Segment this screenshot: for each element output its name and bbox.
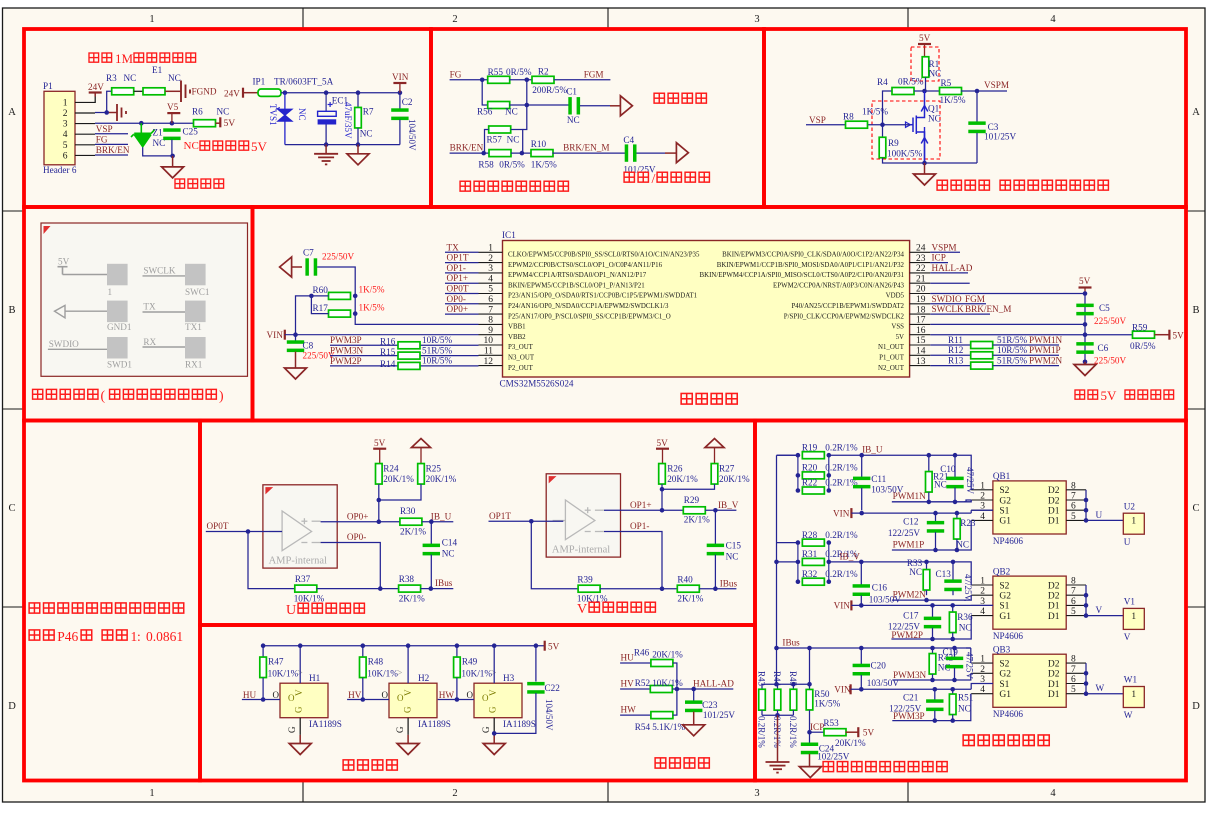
wire R46 to node	[673, 663, 677, 689]
svg-text:ICP: ICP	[810, 722, 824, 732]
pins left QB2	[971, 585, 993, 616]
junction VIN/C8	[293, 332, 298, 337]
svg-text:P1: P1	[43, 81, 53, 91]
annotation: speed signal / level shift (red)	[937, 180, 947, 190]
capacitor C20 103/50V	[860, 648, 862, 664]
junction rail pin17	[1083, 322, 1088, 327]
resistor R53 20K/1%	[810, 731, 825, 733]
resistor R7 (NC)	[357, 93, 359, 108]
svg-text:R54: R54	[635, 722, 651, 732]
wire OP0T input	[206, 531, 282, 533]
svg-text:2K/1%: 2K/1%	[677, 594, 703, 604]
svg-text:R22: R22	[802, 478, 818, 488]
right pin 16 wire to R59	[930, 334, 1132, 336]
svg-text:R26: R26	[667, 464, 683, 474]
svg-text:PWM2N: PWM2N	[893, 589, 927, 599]
svg-text:S1: S1	[999, 507, 1009, 517]
resistor R4 0R/5%	[883, 91, 893, 125]
junction C14 bottom	[429, 586, 434, 591]
wire IB_U row	[777, 454, 798, 456]
wire C22 bottom to H3 G	[494, 693, 536, 733]
pins right QB2	[1066, 585, 1086, 616]
wire R1 bottom	[925, 77, 927, 91]
wire bottom rail block1	[285, 144, 400, 146]
svg-text:3: 3	[754, 14, 759, 25]
svg-text:NP4606: NP4606	[993, 631, 1024, 641]
junction C1 left	[525, 103, 530, 108]
svg-text:(: (	[101, 388, 106, 404]
junction R39/R40/OP1-	[660, 586, 665, 591]
svg-text:R27: R27	[719, 464, 735, 474]
svg-text:OP0-: OP0-	[347, 532, 366, 542]
svg-text:R39: R39	[577, 574, 593, 584]
svg-text:10R/5%: 10R/5%	[997, 345, 1027, 355]
svg-text:NC: NC	[959, 623, 972, 633]
svg-text:101/25V: 101/25V	[984, 132, 1017, 142]
svg-text:TX: TX	[447, 242, 460, 252]
annotation: reserved port swap circuit (red)	[460, 181, 470, 191]
svg-text:0.2R/1%: 0.2R/1%	[788, 716, 798, 748]
resistor R27 20K/1%	[711, 464, 718, 485]
svg-text:D: D	[8, 701, 16, 712]
svg-text:TX: TX	[143, 302, 156, 312]
junction C23 top	[691, 687, 696, 692]
svg-text:0R/5%: 0R/5%	[506, 67, 532, 77]
ground (C8)	[295, 352, 297, 369]
wire to output connector V1	[1086, 615, 1123, 617]
svg-text:0.2R/1%: 0.2R/1%	[825, 442, 858, 452]
resistor R29 2K/1%	[683, 507, 705, 514]
svg-text:4: 4	[1050, 788, 1056, 799]
svg-text:C14: C14	[442, 538, 458, 548]
svg-text:A: A	[8, 107, 16, 118]
svg-text:7: 7	[488, 305, 493, 315]
svg-text:B: B	[1192, 305, 1199, 316]
resistor R3 (NC)	[112, 88, 134, 95]
resistor E1 (NC)	[143, 88, 165, 95]
power arrow VCC (V-phase)	[705, 439, 724, 448]
wire main 24V rail	[281, 92, 400, 94]
svg-text:0.2R/1%: 0.2R/1%	[757, 716, 767, 748]
junction R60 right	[353, 294, 358, 299]
junction HALL-AD	[675, 687, 680, 692]
annotation: main control circuit (red)	[681, 393, 692, 404]
svg-text:R16: R16	[380, 337, 396, 347]
svg-text:PWM2P: PWM2P	[330, 356, 362, 366]
wire HW row	[620, 714, 651, 716]
grey arrow port GND1	[55, 305, 66, 317]
svg-text:16: 16	[916, 326, 926, 336]
svg-text:V: V	[488, 689, 498, 696]
svg-text:RX: RX	[143, 337, 156, 347]
svg-text:R29: R29	[684, 495, 700, 505]
annotation: speed feedback (red)	[654, 93, 664, 103]
power port V5	[167, 112, 180, 114]
junction R2 left	[525, 78, 530, 83]
junction C10 top	[953, 453, 958, 458]
svg-text:NP4606: NP4606	[993, 709, 1024, 719]
svg-text:D2: D2	[1048, 496, 1060, 506]
svg-text:R3: R3	[106, 73, 117, 83]
capacitor C25	[163, 128, 180, 140]
svg-text:RX1: RX1	[185, 360, 203, 370]
svg-text:0.2R/1%: 0.2R/1%	[825, 463, 858, 473]
svg-text:R4: R4	[877, 77, 888, 87]
capacitor C5 225/50V	[1076, 304, 1093, 316]
pins right QB1	[1066, 490, 1086, 521]
wire IBus row (U)	[248, 532, 295, 589]
svg-text:VIN: VIN	[267, 330, 284, 340]
svg-text:R47: R47	[268, 657, 284, 667]
wire OP1T input	[489, 520, 564, 522]
annotation: reserved external 5V (red)	[200, 141, 210, 150]
transistor Q1 (NC, blue MOSFET)	[913, 91, 928, 163]
svg-text:14: 14	[916, 347, 926, 357]
wire to output connector U2	[1086, 519, 1123, 521]
grey pad RX1	[185, 337, 206, 359]
wire C1 to port	[580, 105, 610, 107]
svg-text:R38: R38	[399, 574, 415, 584]
svg-text:20K/1%: 20K/1%	[835, 738, 866, 748]
wire H2 V pin	[407, 646, 409, 684]
svg-text:SWCLK: SWCLK	[932, 304, 965, 314]
svg-text:C6: C6	[1098, 343, 1109, 353]
svg-text:IB_V: IB_V	[840, 551, 861, 561]
svg-text:HU: HU	[243, 690, 257, 700]
svg-text:Q1: Q1	[928, 104, 940, 114]
junction C15 top	[713, 508, 718, 513]
svg-text:S1: S1	[999, 602, 1009, 612]
ground (C24)	[809, 754, 811, 767]
junction rail H2 V	[406, 643, 411, 648]
svg-text:5: 5	[63, 141, 68, 151]
resistor R33 (NC)	[926, 562, 928, 570]
svg-text:>: >	[397, 668, 403, 679]
power port 24V	[89, 91, 102, 93]
junction R21 top	[927, 453, 932, 458]
junction R47 bottom	[261, 697, 266, 702]
junction R36 top	[950, 603, 955, 608]
svg-text:8: 8	[1071, 481, 1076, 491]
svg-text:IP1: IP1	[253, 77, 266, 87]
op-amp triangle (U)	[269, 511, 320, 551]
wire BRK/EN row	[450, 152, 490, 154]
svg-text:S2: S2	[999, 659, 1009, 669]
capacitor C15 (NC)	[714, 510, 716, 544]
svg-text:18: 18	[916, 305, 926, 315]
wire H1 G pin	[299, 718, 301, 735]
svg-text:20: 20	[916, 285, 926, 295]
svg-text:BKIN/EPWM4/CCP1A/SPI0_MISO/SCL: BKIN/EPWM4/CCP1A/SPI0_MISO/SCL0/CTS0/A0P…	[700, 272, 905, 279]
resistor R10 1K/5%	[531, 150, 553, 157]
op-amp block V outline	[546, 474, 620, 557]
svg-text:NC: NC	[958, 704, 971, 714]
svg-text:R52: R52	[635, 678, 651, 688]
junction rail	[283, 90, 288, 95]
svg-text:5V: 5V	[863, 728, 875, 738]
wire R56 right	[509, 104, 569, 106]
5V rail vertical	[1084, 294, 1086, 362]
wire HU row	[242, 699, 280, 701]
resistor R24 20K/1%	[376, 464, 383, 485]
pins left QB1	[971, 490, 993, 521]
svg-text:R56: R56	[477, 106, 493, 116]
svg-text:C16: C16	[872, 583, 888, 593]
svg-text:CMS32M5526S024: CMS32M5526S024	[500, 379, 574, 389]
junction Z1 top	[139, 121, 144, 126]
svg-text:Header 6: Header 6	[43, 165, 77, 175]
wire R37-R38	[317, 588, 399, 590]
resistor R42 (NC)	[932, 648, 934, 654]
op-amp triangle (V)	[553, 500, 604, 540]
svg-text:PWM1N: PWM1N	[893, 491, 927, 501]
fuse IP1	[258, 89, 281, 96]
wire R24/R25 bottoms join	[378, 484, 380, 522]
svg-text:D: D	[1192, 701, 1200, 712]
resistor R8 1K/5%	[846, 121, 868, 128]
right pin 24 net VSPM	[930, 251, 960, 253]
svg-text:19: 19	[916, 295, 926, 305]
svg-text:QB1: QB1	[993, 471, 1011, 481]
svg-text:NC: NC	[567, 115, 580, 125]
svg-text:D2: D2	[1048, 581, 1060, 591]
svg-text:1: 1	[1131, 612, 1136, 622]
svg-text:1: 1	[980, 481, 985, 491]
annotation: reserved 5V jumper resistor (red)	[1075, 390, 1085, 399]
junction EC1 bottom	[324, 142, 329, 147]
svg-text:NC: NC	[442, 549, 455, 559]
svg-text:51R/5%: 51R/5%	[997, 335, 1027, 345]
zener diode Z1 (NC)	[131, 123, 155, 137]
wire to output connector W1	[1086, 693, 1123, 695]
svg-text:NC: NC	[726, 552, 739, 562]
wire pin1 to 24V bar	[94, 97, 96, 103]
svg-text:5V: 5V	[58, 257, 70, 267]
svg-text:R15: R15	[380, 347, 396, 357]
wire R57 left down	[485, 130, 489, 154]
svg-text:A: A	[1192, 107, 1200, 118]
svg-text:2: 2	[63, 109, 68, 119]
svg-text:R17: R17	[313, 303, 329, 313]
wire R29 to IB_V	[705, 509, 736, 511]
wire BRK/EN stub	[95, 154, 128, 156]
capacitor C1 (NC)	[568, 97, 580, 114]
wire R4-R5	[914, 90, 940, 92]
svg-text:NC: NC	[909, 567, 922, 577]
svg-text:1M: 1M	[115, 51, 134, 66]
svg-text:2: 2	[452, 14, 457, 25]
wire PWM2N row to G2	[892, 599, 966, 601]
svg-text:O: O	[273, 690, 280, 700]
wire R55-R2	[509, 79, 532, 81]
svg-text:G2: G2	[999, 670, 1011, 680]
wire VSP stub	[95, 133, 128, 135]
svg-text:51R/5%: 51R/5%	[997, 355, 1027, 365]
grey pad GND1	[107, 301, 128, 323]
svg-text:R59: R59	[1132, 323, 1148, 333]
svg-text:1: 1	[1131, 517, 1136, 527]
ground (H1)	[299, 735, 301, 744]
junction OP1T feedback	[529, 519, 534, 524]
wire FG to R56	[482, 80, 488, 105]
svg-text:SWDIO: SWDIO	[932, 294, 962, 304]
svg-text:C19: C19	[943, 647, 959, 657]
junction C16 top (IB_V row)	[859, 560, 864, 565]
svg-text:6: 6	[1071, 597, 1076, 607]
svg-text:15: 15	[916, 336, 926, 346]
svg-text:R2: R2	[538, 67, 549, 77]
svg-text:V5: V5	[167, 102, 179, 112]
junction Q1 drain node	[922, 89, 927, 94]
svg-text::: :	[137, 629, 141, 644]
svg-text:G: G	[287, 726, 297, 733]
svg-text:D2: D2	[1048, 670, 1060, 680]
svg-text:VSS: VSS	[891, 324, 904, 331]
svg-text:4: 4	[488, 274, 493, 284]
capacitor C6 225/50V	[1076, 342, 1093, 354]
svg-text:BKIN/EPWM3/CCP0A/SPI0_CLK/SDA0: BKIN/EPWM3/CCP0A/SPI0_CLK/SDA0/A0O/C1P2/…	[722, 252, 904, 259]
svg-text:5: 5	[1071, 685, 1076, 695]
wire R54 to node	[673, 689, 677, 715]
wire FG row	[450, 79, 488, 81]
svg-text:VBB2: VBB2	[508, 334, 526, 341]
svg-text:R53: R53	[823, 718, 839, 728]
svg-text:BKIN/EPWM1/CCP1B/SPI0_MOSI/SDA: BKIN/EPWM1/CCP1B/SPI0_MOSI/SDA0/A0P1/C1P…	[717, 262, 905, 269]
wire R60/R17 left rail	[296, 296, 329, 335]
output connector V1	[1123, 608, 1144, 629]
svg-text:0.0861: 0.0861	[146, 629, 183, 644]
svg-text:U2: U2	[1124, 501, 1136, 511]
svg-text:7: 7	[1071, 587, 1076, 597]
electrolytic capacitor EC1 47uF/35V (blue)	[325, 93, 327, 112]
svg-text:OP1T: OP1T	[447, 253, 469, 263]
svg-text:122/25V: 122/25V	[888, 528, 921, 538]
shunt resistor R43 0.2R/1%	[761, 684, 763, 689]
capacitor C2 104/50V	[399, 93, 401, 110]
resistor R51 (NC)	[952, 689, 954, 694]
shunt resistor R44 0.2R/1%	[777, 684, 779, 689]
svg-text:Z1: Z1	[153, 128, 164, 138]
svg-text:P40/AN25/CCP1B/EPWM1/SWDDAT2: P40/AN25/CCP1B/EPWM1/SWDDAT2	[791, 303, 904, 310]
junction C25 top	[170, 121, 175, 126]
junction R17 right	[353, 311, 358, 316]
svg-text:GND1: GND1	[107, 322, 132, 332]
hall sensor H2 IA1189S	[389, 683, 437, 718]
svg-text:HU: HU	[621, 653, 635, 663]
svg-text:FGND: FGND	[192, 87, 217, 97]
svg-text:R44: R44	[772, 671, 782, 687]
svg-text:R20: R20	[802, 463, 818, 473]
svg-text:HW: HW	[621, 704, 637, 714]
ground (power port)	[172, 156, 174, 167]
wire R53 to 5V	[846, 731, 859, 733]
red triangle marker (V)	[549, 476, 557, 483]
svg-text:R25: R25	[426, 464, 442, 474]
pin 3 of P1	[75, 123, 95, 125]
svg-text:10R/5%: 10R/5%	[422, 335, 452, 345]
svg-text:R28: R28	[802, 530, 818, 540]
capacitor C7 225/50V	[292, 266, 302, 268]
svg-text:TR/0603FT_5A: TR/0603FT_5A	[274, 77, 334, 87]
svg-text:3: 3	[754, 788, 759, 799]
wire R6 to 5V	[216, 122, 221, 124]
capacitor C19 (47/25V)	[954, 648, 956, 657]
junction rail	[356, 90, 361, 95]
svg-text:2: 2	[980, 665, 985, 675]
junction R37/R38/OP0-	[378, 586, 383, 591]
wire OP1+ row	[604, 509, 683, 511]
junction left rail	[309, 294, 314, 299]
svg-text:5V: 5V	[1101, 388, 1118, 403]
svg-text:102/25V: 102/25V	[817, 752, 850, 762]
svg-text:BKIN/EPWM5/CCP1B/SCL0/OP1_P/AN: BKIN/EPWM5/CCP1B/SCL0/OP1_P/AN13/P21	[508, 282, 645, 289]
right pin 18 net SWCLK BRK/EN_M	[930, 313, 990, 315]
junction C15 bottom	[713, 586, 718, 591]
svg-text:7: 7	[1071, 665, 1076, 675]
earth ground (shunts)	[777, 715, 779, 762]
svg-text:CLKO/EPWM5/CCP0B/SPI0_SS/SCL0/: CLKO/EPWM5/CCP0B/SPI0_SS/SCL0/RTS0/A1O/C…	[508, 252, 700, 259]
svg-text:AMP-internal: AMP-internal	[269, 555, 327, 566]
svg-text:R45: R45	[788, 671, 798, 687]
svg-text:VDD5: VDD5	[886, 293, 905, 300]
svg-text:SWD1: SWD1	[107, 360, 132, 370]
svg-text:1: 1	[108, 287, 113, 297]
svg-text:VSP: VSP	[96, 124, 113, 134]
junction rail	[398, 90, 403, 95]
wire R57 right down	[511, 130, 523, 154]
capacitor C13 (47/25V)	[952, 562, 954, 580]
svg-text:2K/1%: 2K/1%	[400, 526, 426, 536]
pin 1 of P1	[75, 101, 95, 103]
annotation: carbon film sampling resistors (red)	[823, 762, 833, 772]
junction H3 G	[492, 731, 497, 736]
svg-text:20K/1%: 20K/1%	[652, 650, 683, 660]
right pin 22 net HALL-AD	[930, 272, 968, 274]
resistor R37 10K/1%	[295, 585, 317, 592]
wire IBus row	[777, 647, 971, 649]
svg-text:G1: G1	[999, 690, 1011, 700]
port arrow brake/enable	[676, 143, 688, 163]
svg-text:R57: R57	[487, 134, 503, 144]
junction C16 bottom	[859, 603, 864, 608]
svg-text:C11: C11	[871, 474, 886, 484]
svg-text:IBus: IBus	[435, 578, 453, 588]
resistor R49 10K/1%	[456, 646, 458, 657]
svg-text:VSP: VSP	[809, 115, 826, 125]
svg-text:G: G	[403, 706, 413, 713]
junction R24/R25	[377, 498, 382, 503]
svg-text:104/50V: 104/50V	[407, 119, 417, 151]
junction rail pin16	[1083, 332, 1088, 337]
wire VIN row QB3 (S1)	[851, 688, 972, 690]
IC pin function text right	[700, 252, 905, 372]
wire IB_V row	[777, 561, 798, 563]
svg-text:C10: C10	[940, 464, 956, 474]
wire FG stub	[95, 143, 128, 145]
svg-text:PWM1P: PWM1P	[893, 539, 925, 549]
IBus left rail	[776, 455, 778, 648]
svg-text:HV: HV	[348, 690, 362, 700]
junction C3 top	[975, 89, 980, 94]
svg-text:EPWM2/CCP0A/NRST/A0P3/C0N/AN26: EPWM2/CCP0A/NRST/A0P3/C0N/AN26/P43	[773, 282, 905, 289]
svg-text:VIN: VIN	[834, 601, 851, 611]
svg-text:V: V	[1096, 605, 1103, 615]
svg-text:B: B	[8, 305, 15, 316]
svg-text:IC1: IC1	[502, 230, 516, 240]
IC pin stubs and numbers left	[479, 252, 503, 365]
svg-text:N2_OUT: N2_OUT	[878, 365, 905, 372]
junction C13 top	[951, 560, 956, 565]
